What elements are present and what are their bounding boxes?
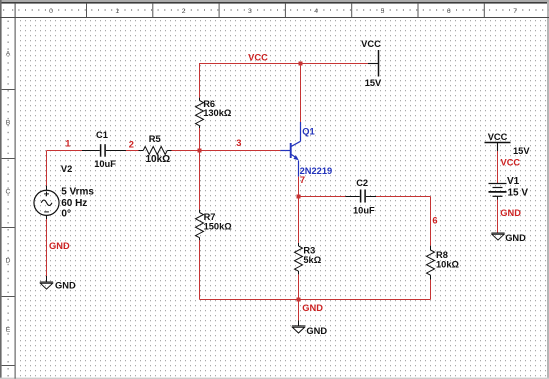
svg-text:V1: V1: [507, 176, 520, 187]
svg-text:V2: V2: [61, 164, 72, 174]
svg-text:15V: 15V: [513, 146, 530, 156]
svg-text:GND: GND: [306, 326, 327, 336]
svg-text:0: 0: [49, 8, 53, 15]
svg-text:4: 4: [314, 8, 318, 15]
svg-text:GND: GND: [505, 233, 526, 243]
svg-text:5kΩ: 5kΩ: [303, 255, 321, 265]
svg-text:6: 6: [447, 8, 451, 15]
svg-text:D: D: [6, 258, 11, 265]
svg-text:GND: GND: [302, 303, 323, 313]
svg-text:VCC: VCC: [488, 132, 508, 142]
svg-text:15 V: 15 V: [508, 187, 529, 198]
svg-text:5 Vrms: 5 Vrms: [61, 187, 94, 198]
svg-text:VCC: VCC: [501, 158, 521, 168]
svg-text:A: A: [6, 51, 11, 58]
svg-text:B: B: [6, 120, 11, 127]
svg-text:6: 6: [432, 216, 437, 226]
svg-text:3: 3: [236, 138, 241, 148]
svg-text:7: 7: [300, 175, 305, 185]
svg-text:GND: GND: [500, 208, 521, 218]
svg-text:GND: GND: [49, 241, 70, 251]
svg-text:R5: R5: [149, 134, 161, 144]
svg-text:15V: 15V: [365, 78, 382, 88]
svg-text:3: 3: [248, 8, 252, 15]
svg-text:0°: 0°: [61, 208, 71, 219]
svg-text:R7: R7: [204, 212, 216, 222]
svg-text:10uF: 10uF: [353, 206, 375, 216]
svg-text:5: 5: [381, 8, 385, 15]
svg-text:10kΩ: 10kΩ: [436, 260, 460, 270]
svg-text:VCC: VCC: [248, 52, 268, 62]
svg-text:10uF: 10uF: [94, 159, 116, 169]
svg-text:GND: GND: [55, 280, 76, 290]
svg-text:Q1: Q1: [302, 127, 314, 137]
svg-text:10kΩ: 10kΩ: [146, 154, 171, 165]
svg-text:2: 2: [129, 139, 134, 149]
svg-text:1: 1: [115, 8, 119, 15]
svg-text:150kΩ: 150kΩ: [204, 222, 233, 232]
svg-text:C: C: [6, 189, 11, 196]
svg-text:C2: C2: [356, 178, 368, 188]
svg-text:1: 1: [65, 138, 70, 148]
svg-text:130kΩ: 130kΩ: [203, 108, 232, 118]
svg-text:VCC: VCC: [361, 39, 381, 49]
svg-text:2: 2: [182, 8, 186, 15]
svg-text:C1: C1: [96, 130, 108, 140]
svg-text:E: E: [6, 327, 11, 334]
svg-text:7: 7: [513, 8, 517, 15]
